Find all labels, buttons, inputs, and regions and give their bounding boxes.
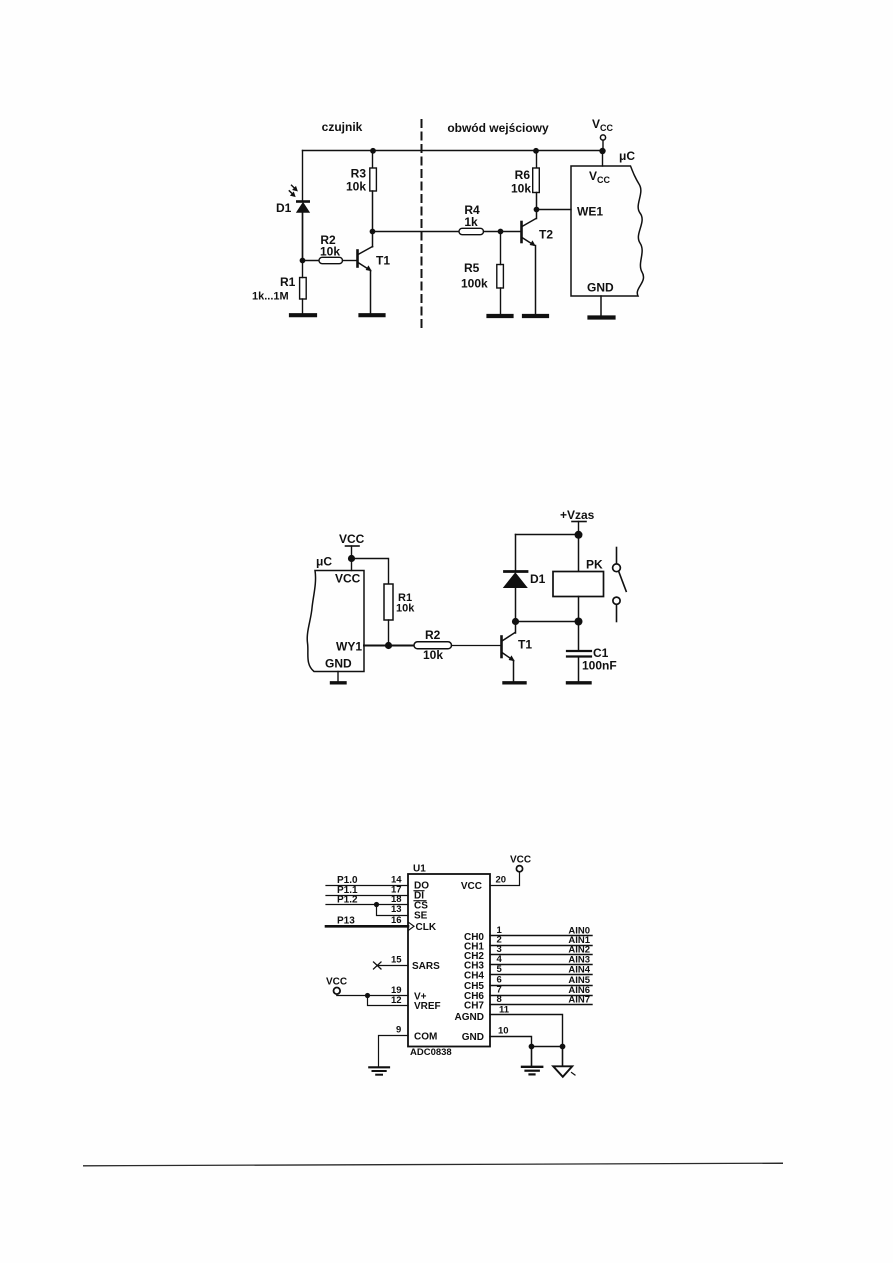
pin names CH0-CH7 bbox=[464, 932, 484, 1012]
svg-text:12: 12 bbox=[391, 995, 402, 1006]
svg-text:VREF: VREF bbox=[414, 1001, 441, 1012]
clock input triangle bbox=[409, 922, 415, 930]
svg-text:CH4: CH4 bbox=[464, 971, 484, 982]
svg-text:D1: D1 bbox=[276, 201, 292, 215]
svg-text:obwód wejściowy: obwód wejściowy bbox=[447, 121, 549, 135]
wire R5 to ground bbox=[500, 288, 502, 314]
ground C1 bbox=[568, 681, 591, 684]
wire CH3/AIN3 bbox=[490, 964, 592, 966]
svg-text:VCC: VCC bbox=[339, 532, 365, 546]
ground T1 emitter bbox=[361, 313, 384, 317]
transistor T1 bbox=[358, 247, 391, 272]
wire top supply rail bbox=[303, 150, 603, 152]
svg-text:CH7: CH7 bbox=[464, 1001, 484, 1012]
resistor R3 bbox=[370, 168, 377, 191]
wire P13 to CLK (bold) bbox=[326, 925, 408, 928]
node relay/C1 junction bbox=[575, 618, 583, 626]
light arrows into D1 bbox=[289, 185, 297, 196]
wire CH4/AIN4 bbox=[490, 974, 592, 976]
svg-text:+Vzas: +Vzas bbox=[560, 508, 595, 522]
svg-text:20: 20 bbox=[496, 875, 507, 886]
svg-text:VCC: VCC bbox=[335, 572, 361, 586]
ground uC bbox=[332, 681, 346, 684]
wire VCC to V+ bbox=[337, 994, 408, 995]
ground digital (earth) bbox=[522, 1067, 542, 1075]
svg-text:P13: P13 bbox=[337, 916, 355, 927]
wire CH1/AIN1 bbox=[490, 945, 592, 947]
wire R3 to T1 collector bbox=[372, 191, 374, 247]
wire P1.0 to DO bbox=[326, 885, 408, 887]
wire to analog ground bbox=[562, 1047, 564, 1066]
svg-text:AIN7: AIN7 bbox=[568, 995, 590, 1006]
svg-text:100k: 100k bbox=[461, 277, 488, 291]
wire R4 to T2 base bbox=[484, 231, 521, 233]
wire to earth ground bbox=[531, 1047, 533, 1067]
svg-text:GND: GND bbox=[325, 657, 352, 671]
diode D1 (photodiode) bbox=[297, 200, 308, 203]
ground uC bbox=[590, 315, 614, 319]
svg-text:WY1: WY1 bbox=[336, 640, 362, 654]
ground R1 bbox=[291, 313, 315, 317]
wire node to R2 bbox=[303, 260, 320, 262]
wire R2 to T1 base bbox=[452, 645, 501, 647]
svg-text:ADC0838: ADC0838 bbox=[410, 1047, 452, 1058]
X mark not connected bbox=[374, 962, 382, 969]
wire R6 to WE1 node bbox=[536, 193, 538, 219]
svg-text:1k: 1k bbox=[464, 215, 478, 229]
svg-text:10k: 10k bbox=[396, 603, 415, 615]
wire T1 emitter to ground bbox=[370, 271, 372, 314]
svg-text:5: 5 bbox=[497, 964, 503, 975]
svg-text:VCC: VCC bbox=[326, 977, 347, 988]
svg-text:GND: GND bbox=[587, 281, 614, 295]
svg-text:μC: μC bbox=[619, 149, 635, 163]
svg-text:T2: T2 bbox=[539, 228, 553, 242]
ground R5 bbox=[489, 314, 512, 318]
node WY1 junction bbox=[385, 642, 392, 649]
wire junction to SE bbox=[377, 905, 409, 916]
svg-text:R6: R6 bbox=[515, 168, 531, 182]
wire relay to node bbox=[578, 597, 580, 622]
transistor T1 bbox=[502, 633, 533, 662]
wire node to node bbox=[516, 621, 579, 623]
resistor R2 bbox=[414, 642, 452, 649]
svg-text:R3: R3 bbox=[351, 167, 367, 181]
svg-text:AIN4: AIN4 bbox=[568, 964, 590, 975]
VCC right terminal circle bbox=[516, 866, 522, 872]
svg-text:R2: R2 bbox=[425, 628, 441, 642]
node R4/R5 junction bbox=[498, 229, 504, 235]
svg-text:9: 9 bbox=[396, 1025, 401, 1036]
ground analog (triangle) bbox=[553, 1066, 572, 1077]
switch contact PK bbox=[613, 548, 627, 622]
svg-text:100nF: 100nF bbox=[582, 659, 617, 673]
node VCC junction bbox=[348, 555, 355, 562]
capacitor C1 bbox=[578, 622, 580, 651]
wire top rail bbox=[516, 534, 579, 536]
wire SARS (n.c.) bbox=[378, 965, 409, 967]
wire uC GND pin bbox=[600, 296, 602, 316]
svg-text:11: 11 bbox=[499, 1005, 510, 1016]
node D1/R1/R2 junction bbox=[300, 258, 306, 264]
svg-text:T1: T1 bbox=[518, 638, 532, 652]
wire D1 to base node bbox=[302, 212, 304, 261]
svg-text:1k...1M: 1k...1M bbox=[252, 291, 289, 303]
wire T2 emitter to ground bbox=[535, 246, 537, 315]
wire +Vzas to relay bbox=[578, 535, 580, 572]
svg-text:WE1: WE1 bbox=[577, 205, 603, 219]
ground T2 emitter bbox=[524, 314, 547, 318]
wire VCC node to R1 branch bbox=[352, 559, 389, 585]
ground COM (earth) bbox=[369, 1067, 389, 1074]
transistor T2 bbox=[522, 219, 554, 247]
wire CH6/AIN6 bbox=[490, 995, 592, 997]
svg-text:R1: R1 bbox=[280, 275, 296, 289]
wire P1.2 to CS bbox=[326, 904, 408, 906]
wire node to R1 bbox=[302, 261, 304, 278]
wire rail to R6 bbox=[536, 151, 538, 169]
ground T1 emitter bbox=[504, 681, 525, 684]
svg-text:10k: 10k bbox=[423, 648, 443, 662]
svg-text:16: 16 bbox=[391, 915, 402, 926]
wire CH7/AIN7 bbox=[490, 1004, 592, 1006]
wire T1 collector to node bbox=[515, 622, 517, 634]
VCC left terminal circle bbox=[334, 988, 341, 995]
svg-text:U1: U1 bbox=[413, 864, 426, 875]
wire CH2/AIN2 bbox=[490, 954, 592, 956]
svg-text:CLK: CLK bbox=[416, 922, 437, 933]
wire WY1 to node bbox=[364, 645, 414, 647]
svg-text:VCC: VCC bbox=[510, 855, 531, 866]
node P1.2/SE junction bbox=[374, 902, 379, 907]
channel pins CH0-CH7 bbox=[490, 936, 592, 1005]
svg-text:10k: 10k bbox=[320, 245, 340, 259]
wire VCC pin into uC bbox=[351, 559, 353, 571]
wire COM to ground bbox=[379, 1036, 409, 1067]
svg-text:μC: μC bbox=[316, 555, 332, 569]
wire rail to R3 bbox=[372, 151, 374, 169]
svg-text:10: 10 bbox=[498, 1026, 509, 1037]
wire R1 to WY1 node bbox=[388, 620, 390, 646]
wire junction to VREF bbox=[368, 996, 409, 1006]
svg-text:AGND: AGND bbox=[455, 1012, 484, 1023]
net labels AIN0-AIN7 bbox=[568, 926, 590, 1006]
node +Vzas junction bbox=[575, 531, 583, 539]
wire CH0/AIN0 bbox=[490, 935, 592, 937]
svg-text:T1: T1 bbox=[376, 254, 390, 268]
svg-text:COM: COM bbox=[414, 1032, 437, 1043]
svg-text:13: 13 bbox=[391, 904, 402, 915]
wire VCC pin 20 bbox=[490, 872, 520, 886]
Vcc terminal circle bbox=[600, 135, 605, 140]
svg-text:SARS: SARS bbox=[412, 961, 440, 972]
node GND junction bbox=[529, 1044, 535, 1050]
wire Vcc rail into uC bbox=[602, 151, 604, 166]
IC U1 ADC0838 bbox=[408, 874, 490, 1047]
relay coil PK bbox=[553, 572, 604, 597]
wire WE1 to uC bbox=[537, 209, 572, 211]
node Vcc rail junction bbox=[599, 148, 605, 154]
wire R2 to T1 base bbox=[343, 260, 357, 262]
svg-text:GND: GND bbox=[462, 1032, 484, 1043]
svg-text:10k: 10k bbox=[511, 182, 531, 196]
svg-text:10k: 10k bbox=[346, 180, 366, 194]
wire R1 to ground bbox=[302, 299, 304, 313]
node AGND junction bbox=[560, 1044, 566, 1050]
wire uC GND pin bbox=[337, 672, 339, 682]
svg-text:VCC: VCC bbox=[461, 881, 482, 892]
wire D1 anode to node bbox=[515, 588, 517, 622]
node rail/R6 junction bbox=[533, 148, 539, 154]
wire P1.1 to DI bbox=[326, 895, 408, 897]
wire +Vzas rail to D1 bbox=[515, 535, 517, 572]
wire ground link bbox=[532, 1046, 563, 1048]
svg-text:D1: D1 bbox=[530, 572, 546, 586]
resistor R1 bbox=[300, 278, 307, 300]
wire node to R5 bbox=[500, 232, 502, 265]
wire rail down to D1 bbox=[302, 151, 304, 201]
svg-text:SE: SE bbox=[414, 911, 428, 922]
wire Vcc terminal to rail bbox=[602, 140, 604, 150]
resistor R1 bbox=[384, 584, 393, 620]
resistor R4 bbox=[459, 228, 484, 234]
svg-text:PK: PK bbox=[586, 558, 603, 572]
svg-text:P1.2: P1.2 bbox=[337, 895, 358, 906]
node T1 collector junction bbox=[512, 618, 519, 625]
tick mark bbox=[572, 1073, 576, 1076]
node rail/R3 junction bbox=[370, 148, 376, 154]
pin numbers 1-8 bbox=[497, 925, 503, 1005]
diode D1 (flyback) bbox=[505, 570, 528, 573]
node collector/output junction bbox=[370, 229, 376, 235]
wire AGND bbox=[490, 1015, 563, 1047]
wire T1 emitter to ground bbox=[513, 661, 515, 682]
wire GND bbox=[490, 1037, 532, 1047]
wire CH5/AIN5 bbox=[490, 985, 592, 987]
resistor R2 bbox=[319, 257, 343, 263]
VCC rail tick bbox=[346, 545, 360, 547]
wire VCC tick to node bbox=[351, 546, 353, 558]
node WE1 junction bbox=[534, 207, 540, 213]
svg-text:R5: R5 bbox=[464, 261, 480, 275]
uC block (torn right edge) bbox=[571, 166, 644, 296]
wire +Vzas stub bbox=[578, 522, 580, 535]
+Vzas tick bbox=[572, 521, 586, 523]
resistor R5 bbox=[497, 265, 504, 289]
uC block (torn left edge) bbox=[307, 571, 364, 672]
wire output to R4 bbox=[373, 231, 460, 233]
svg-text:15: 15 bbox=[391, 955, 402, 966]
node V+/VREF junction bbox=[365, 993, 370, 998]
svg-text:czujnik: czujnik bbox=[322, 120, 363, 134]
resistor R6 bbox=[533, 168, 540, 193]
dashed section divider bbox=[421, 120, 423, 327]
